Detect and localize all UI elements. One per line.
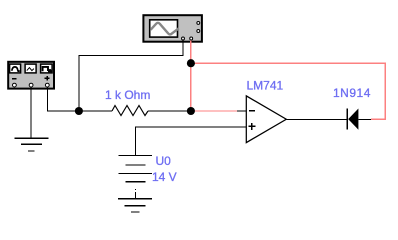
svg-text:14 V: 14 V	[152, 170, 177, 184]
diode D1	[347, 109, 371, 130]
wire battery negative dash-dot stem	[135, 189, 137, 199]
wire battery to op-amp non-inverting input	[136, 127, 247, 155]
svg-text:U0: U0	[156, 154, 172, 168]
function generator FG1	[8, 62, 54, 89]
wire feedback net (red)	[191, 63, 385, 119]
node A junction	[75, 107, 83, 115]
wire scope channel B (red)	[190, 40, 192, 63]
oscilloscope OSC1	[143, 15, 202, 42]
node C junction	[187, 107, 195, 115]
svg-text:1N914: 1N914	[333, 86, 371, 100]
resistor R1	[79, 106, 191, 116]
svg-text:1 k Ohm: 1 k Ohm	[105, 88, 150, 102]
wire op-amp output to diode	[286, 118, 347, 120]
wire node C to op-amp inverting input (red)	[191, 110, 237, 112]
node B junction	[187, 59, 195, 67]
battery U0	[119, 156, 153, 182]
svg-text:LM741: LM741	[247, 79, 284, 93]
wire FG plus output to node A	[47, 87, 79, 111]
wire FG common to ground	[30, 87, 32, 138]
wire scope channel A to node A	[79, 40, 183, 111]
op-amp U1 LM741	[237, 96, 286, 143]
ground GND1	[15, 138, 49, 151]
ground GND2	[118, 199, 152, 212]
wire node B to node C (red)	[190, 63, 192, 111]
